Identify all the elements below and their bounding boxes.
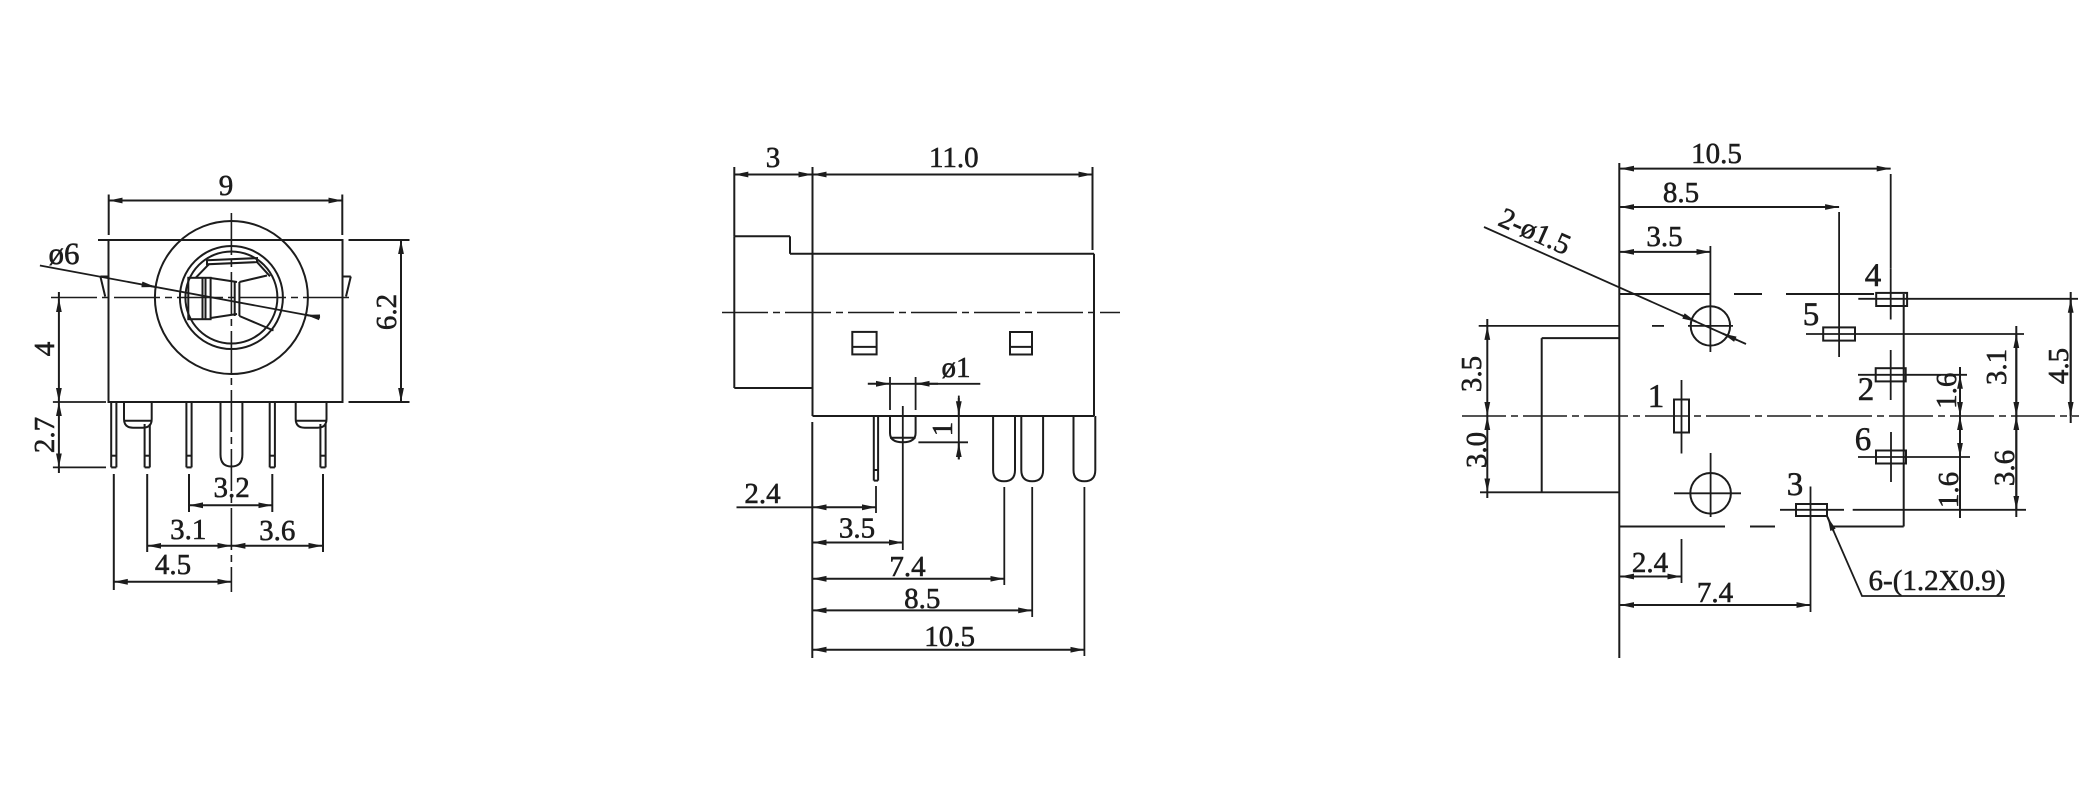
svg-text:1: 1 [927, 422, 959, 437]
svg-text:3: 3 [1787, 467, 1804, 503]
svg-text:2-ø1.5: 2-ø1.5 [1494, 202, 1575, 262]
svg-text:ø1: ø1 [942, 352, 971, 384]
svg-text:2.7: 2.7 [29, 417, 61, 453]
svg-text:6-(1.2X0.9): 6-(1.2X0.9) [1869, 565, 2006, 597]
svg-text:8.5: 8.5 [904, 583, 940, 615]
svg-text:3.5: 3.5 [1646, 221, 1682, 253]
svg-text:7.4: 7.4 [889, 551, 926, 583]
svg-text:4: 4 [29, 341, 61, 356]
svg-text:6: 6 [1855, 422, 1872, 458]
svg-text:2.4: 2.4 [744, 478, 781, 510]
svg-text:4.5: 4.5 [2043, 348, 2075, 384]
svg-text:2.4: 2.4 [1632, 547, 1669, 579]
svg-text:1.6: 1.6 [1931, 373, 1963, 409]
svg-text:4: 4 [1865, 258, 1882, 294]
svg-text:6.2: 6.2 [371, 294, 403, 330]
svg-text:3.5: 3.5 [839, 513, 875, 545]
svg-text:5: 5 [1803, 297, 1820, 333]
svg-text:3: 3 [766, 142, 781, 174]
svg-text:11.0: 11.0 [929, 142, 979, 174]
svg-text:3.1: 3.1 [1981, 349, 2013, 385]
svg-text:10.5: 10.5 [1691, 138, 1742, 170]
svg-text:3.0: 3.0 [1461, 432, 1493, 468]
svg-text:2: 2 [1858, 372, 1875, 408]
svg-text:9: 9 [219, 170, 234, 202]
svg-text:1.6: 1.6 [1933, 472, 1965, 508]
svg-text:3.6: 3.6 [259, 515, 295, 547]
svg-text:7.4: 7.4 [1697, 577, 1734, 609]
svg-text:10.5: 10.5 [924, 621, 975, 653]
svg-text:1: 1 [1648, 379, 1665, 415]
svg-text:4.5: 4.5 [155, 549, 191, 581]
svg-text:3.5: 3.5 [1456, 356, 1488, 392]
svg-text:8.5: 8.5 [1663, 177, 1699, 209]
svg-text:ø6: ø6 [49, 236, 80, 271]
svg-text:3.2: 3.2 [213, 472, 249, 504]
svg-text:3.6: 3.6 [1989, 450, 2021, 486]
svg-text:3.1: 3.1 [170, 514, 206, 546]
